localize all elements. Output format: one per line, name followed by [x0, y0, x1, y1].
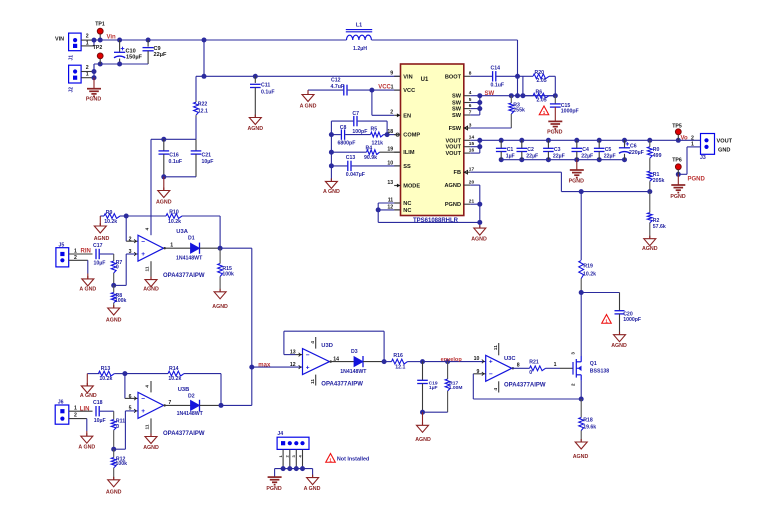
resistor R13 [87, 373, 99, 375]
svg-text:1N4148WT: 1N4148WT [176, 256, 203, 262]
svg-text:VIN: VIN [403, 74, 412, 80]
capacitor C18 [95, 406, 97, 416]
resistor R9 [100, 215, 104, 217]
U3D power pin 11 [315, 375, 317, 386]
capacitor C1 [500, 140, 502, 148]
capacitor C21 [195, 139, 197, 151]
svg-text:4: 4 [145, 385, 151, 388]
wire C20 branch [579, 290, 584, 295]
svg-text:D3: D3 [351, 349, 358, 355]
svg-text:C3: C3 [554, 147, 561, 153]
svg-text:9: 9 [390, 71, 393, 77]
svg-text:C13: C13 [346, 155, 356, 161]
wire Q1 source [580, 381, 582, 399]
svg-text:0: 0 [116, 264, 119, 270]
capacitor C17 [95, 249, 97, 259]
diode D3 [354, 357, 363, 367]
svg-text:0: 0 [529, 370, 532, 376]
svg-text:AGND: AGND [573, 454, 589, 460]
op-amp U3A [138, 235, 164, 261]
svg-text:A GND: A GND [80, 393, 97, 399]
svg-text:AGND: AGND [156, 199, 172, 205]
svg-text:VOUT: VOUT [445, 145, 461, 151]
ground AGND R15 [219, 289, 221, 292]
svg-text:10.2k: 10.2k [99, 376, 112, 382]
svg-text:11: 11 [145, 266, 151, 271]
svg-text:R10: R10 [169, 210, 179, 216]
svg-text:D1: D1 [188, 235, 195, 241]
svg-text:4: 4 [493, 388, 499, 391]
resistor R2 [649, 192, 651, 213]
resistor R16 [384, 361, 391, 363]
svg-text:OPA4377AIPW: OPA4377AIPW [163, 431, 205, 437]
svg-text:C17: C17 [93, 243, 103, 249]
capacitor C19 [422, 362, 424, 381]
svg-text:AGND: AGND [611, 343, 627, 349]
svg-text:NC: NC [403, 208, 411, 214]
ground AGND U1 [479, 225, 481, 228]
svg-text:1: 1 [170, 243, 173, 249]
svg-text:NC: NC [403, 201, 411, 207]
wire max node vertical [251, 248, 253, 405]
svg-text:10: 10 [474, 356, 480, 362]
svg-text:19: 19 [387, 147, 393, 153]
wire VCC node to U1 [369, 88, 374, 93]
svg-text:1µF: 1µF [429, 385, 438, 391]
svg-text:4: 4 [310, 341, 316, 344]
ground AGND J4 [312, 469, 314, 478]
svg-text:0.1uF: 0.1uF [169, 159, 183, 165]
wire Vin bus [94, 39, 347, 41]
capacitor C14 [470, 75, 492, 77]
wire J5 pin1 to C17 [69, 253, 93, 255]
ground AGND C11 [254, 115, 256, 118]
capacitor C6 [624, 140, 626, 148]
svg-text:A GND: A GND [323, 189, 340, 195]
svg-text:FB: FB [454, 170, 461, 176]
svg-text:COMP: COMP [403, 133, 420, 139]
svg-text:GND: GND [718, 148, 730, 154]
U3A power pin 11 [150, 261, 152, 279]
svg-text:PGND: PGND [86, 97, 101, 103]
ground AGND J6 [86, 433, 88, 436]
svg-text:2.05: 2.05 [537, 78, 547, 84]
svg-text:AGND: AGND [415, 437, 431, 443]
svg-text:2: 2 [74, 413, 77, 419]
wire R7 R8 node to pin3 [111, 283, 116, 288]
svg-text:C10: C10 [126, 48, 136, 54]
svg-text:3: 3 [129, 249, 132, 255]
svg-text:+: + [141, 251, 145, 258]
ground AGND C19 [422, 412, 424, 425]
capacitor C15 [554, 96, 556, 104]
svg-text:R13: R13 [101, 366, 111, 372]
svg-text:100pF: 100pF [352, 129, 367, 135]
svg-text:6: 6 [129, 394, 132, 400]
svg-text:J4: J4 [277, 431, 283, 437]
svg-text:−: − [489, 371, 493, 378]
svg-text:R22: R22 [198, 101, 208, 107]
svg-text:R19: R19 [583, 264, 593, 270]
svg-text:AGND: AGND [106, 317, 122, 323]
resistor R22 [195, 76, 197, 100]
svg-text:150µF: 150µF [126, 54, 143, 60]
svg-text:9: 9 [477, 369, 480, 375]
ground AGND R2 [649, 236, 651, 239]
resistor R14 [168, 371, 184, 376]
svg-text:TP5: TP5 [672, 124, 682, 130]
svg-text:121k: 121k [372, 141, 384, 147]
resistor R20 [518, 75, 534, 77]
svg-text:AGND: AGND [642, 246, 658, 252]
resistor R15 [219, 248, 221, 263]
svg-text:C11: C11 [261, 82, 270, 88]
wire comp rail [330, 121, 332, 181]
svg-text:A GND: A GND [300, 103, 317, 109]
svg-text:MODE: MODE [403, 184, 420, 190]
svg-text:BSS138: BSS138 [590, 369, 609, 375]
svg-text:U3D: U3D [321, 343, 333, 349]
svg-text:1000pF: 1000pF [561, 109, 579, 115]
svg-text:R18: R18 [583, 418, 593, 424]
svg-text:−: − [141, 396, 145, 403]
svg-text:10.2k: 10.2k [583, 271, 596, 277]
test point TP5 [675, 129, 681, 135]
wire VCC1 rail [151, 138, 196, 140]
wire COMP node [385, 132, 390, 137]
IC U1 TPS61088RHLR [401, 64, 464, 216]
svg-text:−: − [141, 238, 145, 245]
svg-text:0.047µF: 0.047µF [346, 172, 365, 178]
capacitor C3 [547, 140, 549, 148]
warning triangle not installed [326, 454, 336, 463]
svg-text:R14: R14 [169, 366, 179, 372]
ground AGND C20 [619, 332, 621, 335]
ground AGND J5 [87, 276, 89, 279]
wire VOUT bus [480, 139, 701, 141]
svg-text:PGND: PGND [547, 129, 562, 135]
svg-text:VOUT: VOUT [445, 138, 461, 144]
svg-text:J1: J1 [69, 55, 75, 61]
ground AGND C12 [307, 90, 309, 94]
svg-text:BOOT: BOOT [445, 74, 462, 80]
svg-text:A GND: A GND [78, 445, 95, 451]
svg-text:100k: 100k [115, 298, 127, 304]
svg-text:SW: SW [452, 113, 462, 119]
test point TP6 [675, 164, 681, 170]
svg-text:C18: C18 [93, 400, 103, 406]
svg-text:1µF: 1µF [506, 154, 515, 160]
svg-text:C8: C8 [340, 125, 347, 131]
ground PGND TP6 [677, 174, 679, 185]
resistor R19 [580, 192, 582, 260]
wire NC pins [394, 202, 400, 204]
svg-text:Vo: Vo [681, 135, 689, 141]
wire input ground bus [94, 63, 148, 65]
svg-text:−: − [306, 352, 310, 359]
svg-text:220µF: 220µF [629, 150, 644, 156]
connector J3 [701, 134, 715, 155]
svg-text:C12: C12 [331, 78, 341, 84]
svg-text:C16: C16 [169, 153, 179, 159]
ground PGND C15 [548, 120, 562, 122]
U3D power pin 4 [315, 337, 317, 349]
svg-text:R16: R16 [393, 353, 403, 359]
svg-text:C2: C2 [527, 147, 534, 153]
svg-text:1N4148WT: 1N4148WT [340, 369, 367, 375]
resistor R18 [580, 399, 582, 418]
svg-text:205k: 205k [653, 178, 665, 184]
svg-text:4: 4 [145, 228, 151, 231]
svg-text:10µF: 10µF [94, 418, 106, 424]
diode D1 [191, 243, 200, 253]
resistor R5 [345, 134, 370, 136]
svg-text:AGND: AGND [212, 304, 228, 310]
svg-text:TP6: TP6 [672, 158, 682, 164]
svg-text:2: 2 [86, 65, 89, 71]
svg-text:OPA4377AIPW: OPA4377AIPW [504, 382, 546, 388]
capacitor C5 [598, 140, 600, 148]
svg-text:J6: J6 [58, 399, 64, 405]
connector J1 [69, 33, 82, 51]
svg-text:ILIM: ILIM [403, 150, 415, 156]
svg-text:FSW: FSW [449, 126, 462, 132]
svg-text:A GND: A GND [304, 486, 321, 492]
svg-text:3: 3 [570, 352, 575, 355]
svg-text:+: + [306, 364, 310, 371]
resistor R0 [649, 140, 651, 147]
capacitor C8 [340, 129, 342, 139]
resistor R6 [533, 93, 549, 98]
U1 left pins [394, 75, 400, 77]
svg-text:J2: J2 [69, 87, 75, 93]
wire D3 node [382, 359, 387, 364]
svg-text:22µF: 22µF [526, 154, 538, 160]
capacitor C4 [576, 140, 578, 148]
svg-text:EN: EN [403, 113, 411, 119]
svg-text:14: 14 [333, 356, 339, 362]
ground PGND J4 [274, 469, 276, 478]
transistor Q1 BSS138 [560, 367, 573, 369]
svg-text:11: 11 [145, 424, 151, 429]
wire Vin drop to VIN rail [203, 40, 205, 76]
wire R11 R12 node to pin5 [111, 447, 116, 452]
svg-text:10µF: 10µF [94, 260, 106, 266]
svg-text:499: 499 [653, 153, 662, 159]
svg-text:Q1: Q1 [590, 361, 597, 367]
svg-text:AGND: AGND [143, 445, 159, 451]
ground AGND R18 [580, 439, 582, 442]
wire U1 ground bus [378, 221, 480, 223]
svg-text:R20: R20 [535, 70, 545, 76]
resistor R11 [113, 411, 115, 419]
wire envelop node [420, 359, 425, 364]
wire J3 GND pin [687, 146, 701, 148]
capacitor C20 [619, 293, 621, 311]
svg-text:D2: D2 [188, 393, 195, 399]
wire R9 R10 junction [124, 214, 129, 219]
wire VCC to EN [371, 90, 373, 115]
svg-text:1000pF: 1000pF [623, 317, 641, 323]
svg-text:AGND: AGND [106, 490, 122, 496]
svg-text:18: 18 [387, 129, 393, 135]
svg-text:11: 11 [310, 379, 316, 384]
resistor R4 [331, 151, 366, 153]
connector J2 [69, 65, 82, 83]
svg-text:C7: C7 [352, 111, 359, 117]
wire R20 left drop [522, 76, 524, 95]
svg-text:1: 1 [74, 248, 77, 254]
svg-text:10: 10 [387, 160, 393, 166]
svg-text:0.1uF: 0.1uF [261, 89, 275, 95]
svg-text:R21: R21 [529, 359, 539, 365]
svg-text:7: 7 [168, 400, 171, 406]
svg-text:C21: C21 [202, 153, 212, 159]
resistor R10 [166, 214, 182, 219]
wire C19 R17 ground bus [423, 411, 448, 413]
svg-text:J3: J3 [700, 155, 706, 161]
test point TP2 [97, 53, 103, 59]
wire D2 output node [219, 403, 224, 408]
wires J4 pins [282, 449, 284, 468]
wire L1 to SW node [372, 39, 518, 41]
resistor R1 [647, 171, 652, 181]
U3C power pin 11 [498, 343, 500, 355]
resistor R21 [530, 366, 546, 371]
ground PGND J2 [93, 78, 95, 89]
svg-text:TPS61088RHLR: TPS61088RHLR [413, 218, 459, 224]
U3A output [164, 247, 191, 249]
capacitor C10 [119, 40, 121, 52]
resistor R17 [447, 362, 449, 379]
U3B output [164, 404, 191, 406]
test point TP1 [97, 28, 103, 34]
U1 right pins [464, 75, 471, 77]
svg-text:VOUT: VOUT [445, 151, 461, 157]
svg-text:C14: C14 [491, 66, 501, 72]
op-amp U3C [486, 355, 512, 381]
svg-text:19.6k: 19.6k [583, 425, 596, 431]
svg-text:VCC: VCC [403, 88, 415, 94]
svg-text:U1: U1 [421, 77, 429, 83]
svg-text:1.00M: 1.00M [449, 385, 463, 391]
diode D2 [191, 400, 200, 410]
svg-text:0: 0 [116, 424, 119, 430]
resistor R3 [510, 96, 512, 103]
svg-text:PGND: PGND [266, 486, 281, 492]
wire AGND PGND pins [470, 184, 480, 186]
svg-text:SW: SW [452, 94, 462, 100]
op-amp U3D [303, 349, 330, 375]
svg-text:U3A: U3A [176, 229, 188, 235]
wire J1 pins to Vin node [81, 39, 94, 41]
svg-text:2.05: 2.05 [537, 98, 547, 104]
svg-text:C1: C1 [507, 147, 514, 153]
svg-text:1: 1 [391, 84, 394, 90]
svg-text:10.2k: 10.2k [168, 219, 181, 225]
resistor R7 [113, 254, 115, 261]
ground AGND U3B [150, 434, 152, 437]
svg-text:1: 1 [554, 362, 557, 368]
svg-text:OPA4377AIPW: OPA4377AIPW [163, 273, 205, 279]
svg-text:1.2µH: 1.2µH [353, 46, 367, 52]
svg-text:12: 12 [290, 362, 296, 368]
svg-text:8: 8 [517, 363, 520, 369]
wire U3D feedback [296, 354, 303, 356]
capacitor C9 [147, 40, 149, 47]
svg-text:AGND: AGND [471, 237, 487, 243]
svg-text:J5: J5 [59, 242, 65, 248]
wire SW pins bus [479, 96, 481, 115]
svg-text:AGND: AGND [445, 183, 461, 189]
ground PGND output caps [576, 160, 578, 170]
U3B power pin 4 [150, 381, 152, 392]
svg-text:12.1: 12.1 [198, 108, 208, 114]
svg-text:TP2: TP2 [93, 45, 103, 51]
svg-text:VIN: VIN [55, 36, 64, 42]
svg-text:2: 2 [390, 110, 393, 116]
svg-text:0.1uF: 0.1uF [491, 83, 505, 89]
svg-text:1: 1 [74, 405, 77, 411]
warning triangle C15 [539, 106, 549, 115]
svg-text:A GND: A GND [79, 286, 96, 292]
wire FSW [470, 127, 511, 129]
svg-text:+: + [141, 408, 145, 415]
svg-text:100k: 100k [116, 461, 128, 467]
svg-text:1: 1 [86, 72, 89, 78]
wire VOUT pins bus [479, 140, 481, 153]
ground AGND comp rail [330, 178, 332, 181]
svg-text:5: 5 [129, 406, 132, 412]
connector J5 [56, 248, 69, 267]
svg-text:R4: R4 [366, 145, 373, 151]
wire FB node [647, 189, 652, 194]
svg-text:VCC: VCC [378, 84, 391, 90]
svg-text:AGND: AGND [143, 286, 159, 292]
op-amp U3B [138, 392, 164, 418]
wire C16 C21 ground bus [164, 176, 196, 178]
svg-text:U3C: U3C [504, 356, 516, 362]
svg-text:SW: SW [452, 101, 462, 107]
capacitor C16 [163, 139, 165, 151]
svg-text:22µF: 22µF [154, 52, 167, 58]
ground AGND C16 [163, 188, 165, 191]
wire D1 output node [218, 246, 223, 251]
svg-text:6800pF: 6800pF [338, 141, 356, 147]
svg-text:SW: SW [452, 107, 462, 113]
wire J6 pin1 to C18 [69, 410, 93, 412]
svg-text:PGND: PGND [670, 194, 685, 200]
svg-text:R5: R5 [371, 127, 378, 133]
ground AGND R12 [113, 477, 115, 480]
capacitor C13 [331, 165, 347, 167]
svg-text:13: 13 [387, 180, 393, 186]
svg-text:2: 2 [129, 237, 132, 243]
svg-text:C6: C6 [630, 144, 637, 150]
svg-text:PGND: PGND [445, 202, 461, 208]
U3C output [512, 367, 530, 369]
resistor R8 [113, 285, 115, 292]
ground AGND R9 [99, 216, 101, 226]
wire inverting input U3A [125, 216, 127, 241]
svg-text:AGND: AGND [94, 236, 110, 242]
U3B power pin 11 [150, 418, 152, 436]
wire R13 R14 junction [122, 371, 127, 376]
svg-text:C4: C4 [582, 147, 589, 153]
svg-text:22µF: 22µF [553, 154, 565, 160]
svg-text:2: 2 [570, 383, 575, 386]
svg-text:PGND: PGND [688, 177, 706, 183]
